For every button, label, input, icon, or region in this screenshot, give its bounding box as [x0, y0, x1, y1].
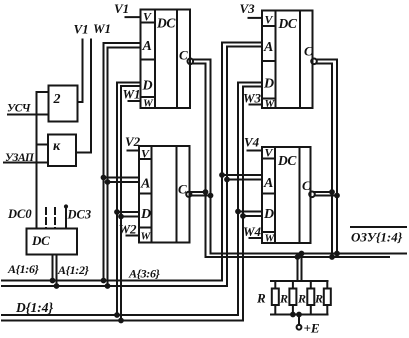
node УЗАП label — [5, 152, 35, 164]
wire Bk output riser (net W1) — [76, 40, 91, 153]
decoder U4 pin C inverted output bubble — [309, 192, 315, 198]
wire УСЧ input — [8, 114, 49, 116]
decoder U2 pin C inverted output bubble — [186, 192, 191, 197]
svg-text:V3: V3 — [240, 1, 256, 16]
svg-text:V1: V1 — [114, 1, 129, 16]
decoder DC5 (address decoder) — [27, 229, 78, 255]
node DC3 label — [67, 208, 92, 222]
wire B2 output riser (net V1) — [78, 40, 83, 103]
wire V3 stub — [249, 17, 263, 19]
resistor R1 — [272, 281, 279, 315]
wire W4 stub — [250, 237, 263, 239]
svg-text:C: C — [304, 44, 313, 59]
svg-text:D{1:4}: D{1:4} — [15, 300, 53, 315]
node W2 input label — [119, 222, 138, 237]
node +E supply terminal — [298, 315, 300, 325]
node V3 input label — [240, 1, 256, 16]
svg-text:A: A — [140, 177, 150, 192]
decoder U4 (DC) — [262, 147, 311, 243]
decoder U3 (DC) — [262, 11, 313, 109]
svg-text:C: C — [302, 178, 311, 193]
decoder U1 pin labels V A D W C — [142, 10, 189, 110]
wire V4 stub — [248, 150, 263, 152]
svg-text:V: V — [143, 10, 152, 24]
svg-text:D: D — [263, 77, 274, 92]
decoder U4 pin labels V A D W C — [263, 146, 311, 245]
svg-text:W3: W3 — [243, 91, 262, 106]
svg-text:УСЧ: УСЧ — [7, 103, 31, 115]
node A{1:6} label — [7, 262, 40, 276]
decoder U3 pin C inverted output bubble — [311, 59, 317, 65]
node ОЗУ{1:4} label with overline — [351, 226, 406, 228]
decoder U1 pin C inverted output bubble — [188, 59, 194, 65]
wire ОЗУ output pair — [211, 253, 407, 255]
svg-text:V2: V2 — [125, 134, 141, 149]
svg-text:к: к — [53, 139, 61, 154]
block B2 (counter gate "2") — [49, 86, 78, 122]
svg-text:W1: W1 — [123, 87, 141, 102]
resistor R4 — [324, 281, 331, 315]
wire bus D riser to U3.D and U4.D — [238, 83, 262, 316]
svg-text:V1: V1 — [74, 22, 89, 37]
wire УЗАП input — [4, 162, 48, 164]
wire resistor top rail — [271, 280, 328, 282]
svg-text:DC: DC — [156, 16, 176, 31]
svg-text:2: 2 — [53, 92, 61, 107]
svg-text:DC: DC — [31, 233, 50, 248]
svg-text:W: W — [265, 98, 276, 110]
svg-text:A: A — [263, 40, 273, 55]
svg-text:+E: +E — [304, 321, 320, 336]
wire resistor bottom rail — [271, 314, 328, 316]
svg-text:A{1:2}: A{1:2} — [57, 263, 90, 277]
wire pull-up tap pair — [297, 257, 299, 281]
wire W1 stub — [129, 100, 141, 102]
svg-text:D: D — [140, 207, 151, 222]
svg-text:A: A — [263, 176, 273, 191]
svg-text:V4: V4 — [244, 135, 260, 150]
svg-text:W: W — [265, 233, 276, 245]
svg-text:V: V — [265, 146, 274, 160]
svg-text:V: V — [265, 13, 274, 27]
decoder U2 (DC) — [139, 146, 190, 243]
svg-text:DC: DC — [278, 16, 298, 31]
B2 / Bk labels — [53, 92, 62, 154]
wire V2 stub — [128, 150, 140, 152]
wire control vertical to DC5 — [36, 92, 38, 229]
wire bus A (A{1:6}) — [2, 280, 222, 282]
node V1 riser label — [74, 22, 89, 37]
node W1 input label — [123, 87, 141, 102]
svg-text:A{3:6}: A{3:6} — [128, 267, 161, 281]
svg-text:D: D — [142, 79, 153, 94]
resistor R2 — [289, 281, 296, 315]
node W4 input label — [243, 224, 262, 239]
wire W2 stub — [127, 235, 140, 237]
wire dashed omitted decoder inputs — [45, 208, 47, 229]
wire bus D (D{1:4}) — [2, 314, 238, 316]
svg-text:ОЗУ{1:4}: ОЗУ{1:4} — [351, 230, 403, 245]
svg-text:A{1:6}: A{1:6} — [7, 262, 40, 276]
node A{1:2} label — [57, 263, 90, 277]
svg-text:DC: DC — [277, 153, 297, 168]
wire W3 stub — [250, 104, 263, 106]
node DC0 label — [7, 207, 32, 221]
node A{3:6} label — [128, 267, 161, 281]
wire V1 stub — [126, 16, 141, 18]
svg-text:W: W — [143, 98, 154, 110]
node УСЧ label — [7, 103, 31, 115]
wire stub to Bk — [37, 144, 49, 146]
wire C pair right (U3.C, U4.C outputs to ОЗУ lines) — [317, 60, 337, 254]
svg-text:R: R — [314, 292, 323, 306]
node V2 input label — [125, 134, 141, 149]
node W1 riser label — [93, 21, 111, 36]
svg-text:V: V — [141, 147, 150, 161]
junction dots at bus joins — [51, 279, 55, 283]
svg-text:DC3: DC3 — [67, 208, 92, 222]
svg-text:A: A — [142, 39, 152, 54]
svg-text:W4: W4 — [243, 224, 262, 239]
wire DC5 output pair to bus A — [52, 255, 54, 281]
svg-text:D: D — [263, 207, 274, 222]
wire C pair left (U1.C, U2.C outputs to ОЗУ lines) — [193, 60, 210, 254]
node W3 input label — [243, 91, 262, 106]
svg-text:R: R — [279, 292, 288, 306]
node V4 input label — [244, 135, 260, 150]
wire DC3 input stub — [65, 207, 67, 229]
svg-text:R: R — [256, 291, 266, 306]
svg-text:W: W — [141, 231, 152, 243]
block Bk (gate "k") — [48, 135, 76, 167]
wire bus A3:6 riser to U3.A and U4.A — [222, 43, 262, 281]
decoder U3 pin labels V A D W C — [263, 13, 313, 111]
resistor value labels R R R R — [256, 291, 323, 306]
decoder U2 pin labels V A D W C — [140, 147, 187, 243]
svg-text:W1: W1 — [93, 21, 111, 36]
node D{1:4} label — [15, 300, 53, 315]
resistor R3 — [307, 281, 314, 315]
wire stub to B2 — [37, 91, 49, 93]
wire bus A1:2 riser to U1.A and U2.A — [104, 43, 141, 281]
wire bus D riser to U1.D and U2.D — [117, 83, 141, 316]
svg-text:R: R — [297, 292, 306, 306]
node V1 input label — [114, 1, 129, 16]
svg-text:DC0: DC0 — [7, 207, 32, 221]
decoder U1 (DC) — [141, 10, 191, 109]
